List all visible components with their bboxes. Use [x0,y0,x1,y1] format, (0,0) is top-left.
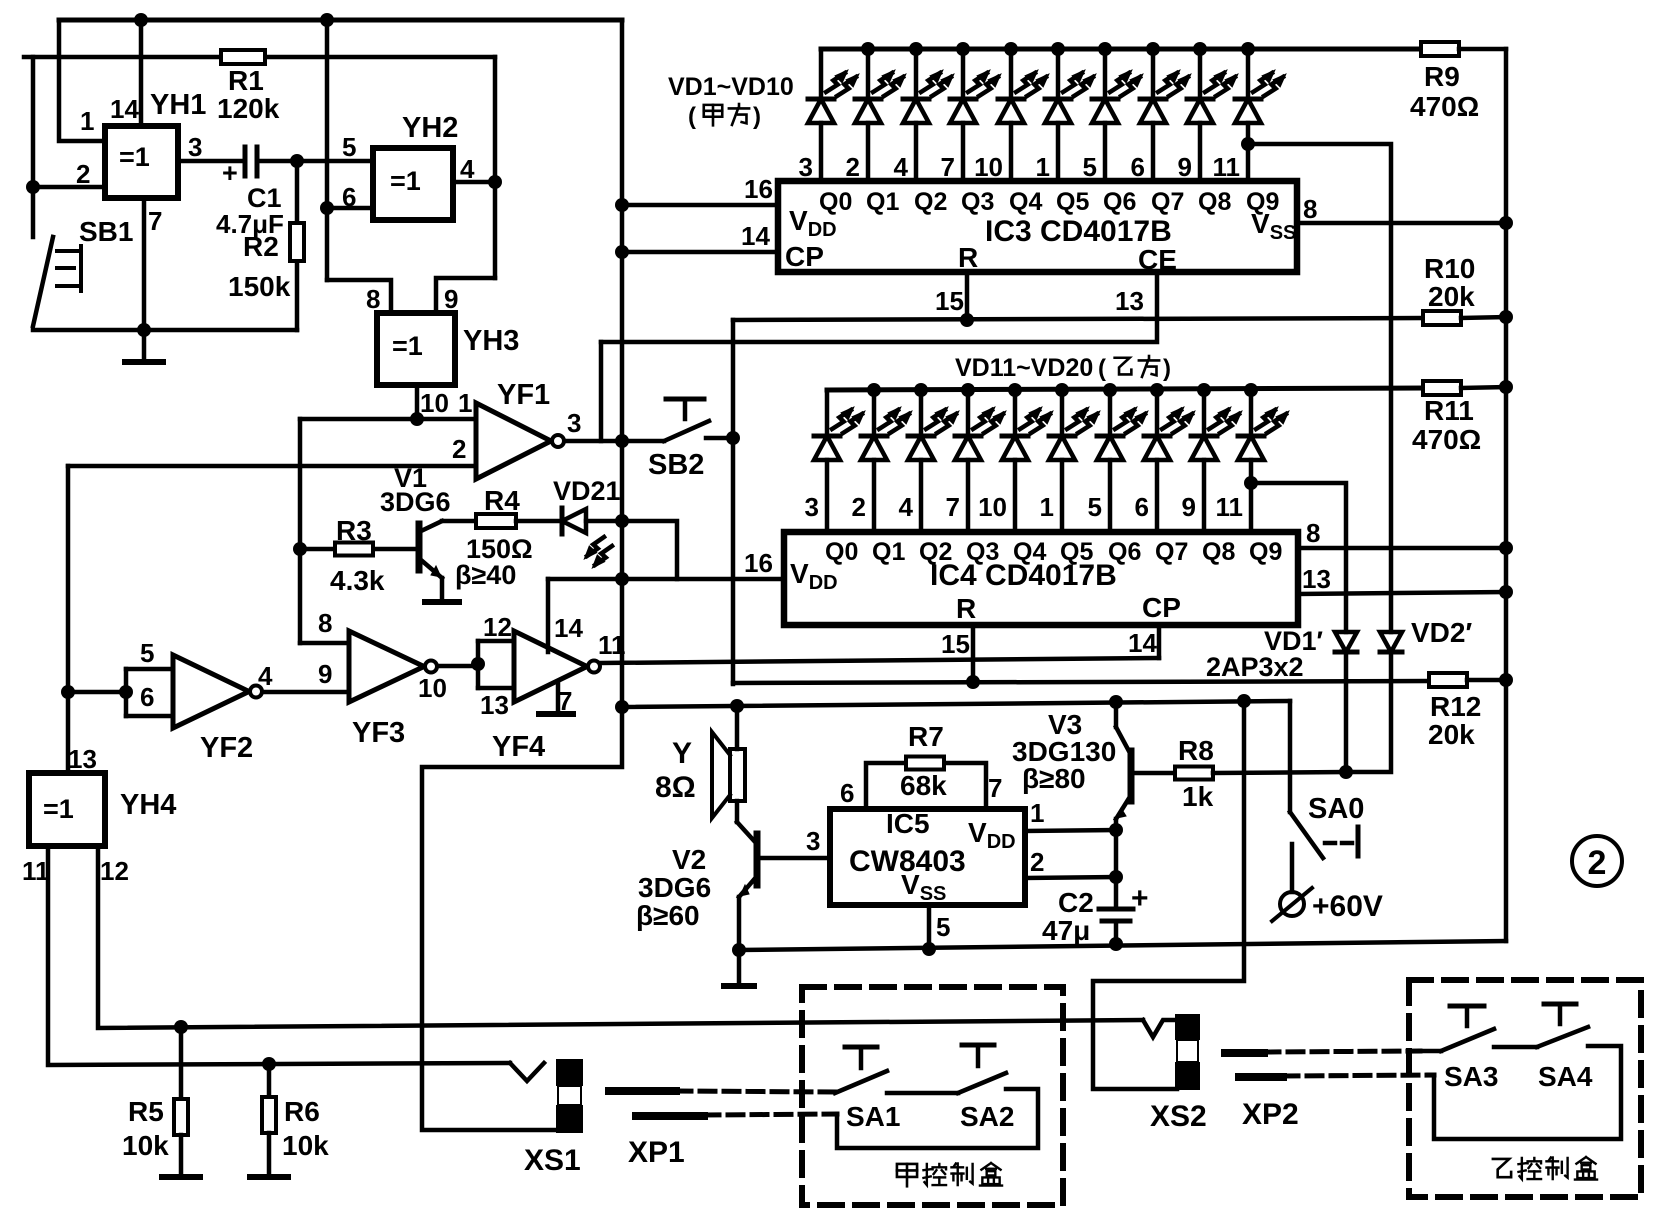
svg-text:470Ω: 470Ω [1412,424,1481,455]
svg-text:68k: 68k [900,770,947,801]
svg-text:13: 13 [1115,286,1144,316]
svg-text:15: 15 [941,629,970,659]
ground rail right [1504,49,1509,941]
svg-text:120k: 120k [217,93,280,124]
wire YF3 out to YF4 [438,664,478,669]
wire CE branch up [599,342,604,441]
wire IC5 pin 2 to C2 [1025,877,1116,878]
wire YF2 input [68,690,126,695]
wire main vertical (bus to audio feed) [620,20,625,708]
svg-text:8: 8 [1306,518,1320,548]
svg-text:=1: =1 [119,142,150,172]
svg-text:11: 11 [1216,492,1244,522]
wire IC4 pin 14 CP from YF4 [1157,625,1162,658]
node audio +V tap [615,700,629,714]
wire R4 to VD21 [516,519,561,524]
wire YF3 pin 8 [300,641,349,646]
xor-gate YH2 [373,148,453,220]
svg-text:1: 1 [458,388,472,418]
svg-text:VD2′: VD2′ [1411,617,1472,648]
speaker Y [730,749,745,801]
transistor V3 collector [1116,727,1131,755]
switch SA4 [1537,1027,1588,1047]
svg-text:14: 14 [554,613,583,643]
svg-text:SA1: SA1 [846,1101,900,1132]
svg-text:8: 8 [1303,194,1317,224]
switch SB2 [664,421,709,441]
resistor R11 [1423,381,1461,395]
led VD1 [819,49,824,99]
wire speaker to V2 collector [735,801,740,822]
wire SA1 to SA2 [887,1091,958,1096]
node IC4 Vdd tap [615,572,629,586]
led VD21 [560,508,565,534]
svg-text:8: 8 [366,284,380,314]
resistor R10 [1423,311,1461,325]
led VD10 [1241,42,1255,56]
svg-text:SA4: SA4 [1538,1061,1593,1092]
svg-text:5: 5 [936,912,950,942]
svg-text:4: 4 [899,492,914,522]
inverter YF4 [514,631,587,702]
wire YH4 pin 12 to XS2 tip [98,846,1143,1028]
svg-text:+60V: +60V [1312,890,1383,923]
node IC3 pin15 junction [960,313,974,327]
svg-text:CP: CP [1142,592,1181,623]
svg-text:2: 2 [852,492,866,522]
node IC4 pin13/rail [1499,585,1513,599]
svg-text:R11: R11 [1424,395,1474,426]
svg-text:3DG6: 3DG6 [638,872,711,903]
inverter YF2 input box [126,667,173,672]
wire feedback vertical to R3/YF3 [298,419,303,643]
jack XS1 tip notch [510,1063,544,1081]
svg-text:SB1: SB1 [79,216,133,247]
wire R9 to rail [1459,47,1506,52]
led VD4 [956,42,970,56]
inverter YF1 [476,403,551,479]
led VD11 [825,390,830,436]
node SB2 / reset vertical [726,431,740,445]
wire IC3 pin 8 Vss [1297,221,1506,226]
wire YF4 pin14 branch [546,579,551,652]
wire SA4 return loop to XP2 [1434,1046,1621,1139]
svg-text:5: 5 [1088,492,1102,522]
resistor R12 [1429,673,1467,687]
svg-text:VD11~VD20: VD11~VD20 [955,354,1093,382]
wire YH1 pin 2 [33,185,105,190]
svg-text:1: 1 [1040,492,1054,522]
plug XP2 lower prong [1239,1073,1283,1081]
svg-text:6: 6 [1135,492,1149,522]
svg-text:YH3: YH3 [463,325,519,357]
node IC3 pin16 tap [615,198,629,212]
svg-text:(: ( [1098,355,1106,382]
wire XS2 sleeve feed [1093,701,1244,1089]
led VD5 [1004,42,1018,56]
svg-text:R: R [958,242,978,273]
wire bottom return SB1/pin7/R2 [33,328,297,333]
wire SB1 top branch [31,57,36,237]
audio IC5 CW8403 [830,809,1025,905]
svg-text:YF4: YF4 [492,731,545,763]
led VD12 [867,383,881,397]
transistor V2 emitter [739,876,757,897]
wire left net vertical to YH4 pin13 [66,466,71,773]
wire VD21 to main vertical [586,519,622,524]
svg-text:β≥60: β≥60 [636,900,700,931]
capacitor C2 [1114,877,1119,908]
wire YF1 pin2 input [68,464,476,469]
svg-text:Q5: Q5 [1060,538,1093,566]
led VD9 [1193,42,1207,56]
jack XS1 body [556,1059,583,1086]
led VD18 [1150,383,1164,397]
svg-text:SA2: SA2 [960,1101,1014,1132]
switch SB1 [33,237,53,326]
svg-text:3: 3 [799,152,813,182]
svg-text:Q7: Q7 [1151,188,1184,216]
wire V2 emitter down [737,897,742,950]
node V3/IC5 pin1 [1109,823,1123,837]
switch SA3 [1441,1029,1494,1051]
node YF2 input branch [61,685,75,699]
svg-text:YF3: YF3 [352,717,405,749]
svg-text:β≥40: β≥40 [455,560,516,590]
svg-text:5: 5 [1083,152,1097,182]
svg-text:=1: =1 [43,794,74,824]
node speaker tap [730,699,744,713]
wire YH1 pin 14 feed [139,20,144,126]
wire YH1 pin3 to C1 to YH2 pin5 [178,159,243,164]
svg-text:11: 11 [598,630,626,660]
svg-text:150k: 150k [228,271,291,302]
svg-text:=1: =1 [390,166,421,196]
figure number 2 [1572,836,1622,886]
wire YH2 pin 4 out [453,180,495,185]
switch SA2 [958,1073,1006,1093]
svg-text:6: 6 [140,682,154,712]
svg-text:13: 13 [1302,564,1331,594]
xor-gate YH1 [105,126,178,198]
svg-text:=1: =1 [392,331,423,361]
svg-text:Q0: Q0 [825,538,858,566]
svg-text:2: 2 [1030,847,1044,877]
svg-text:16: 16 [744,548,773,578]
svg-text:V2: V2 [672,844,706,875]
node pin4 junction [488,175,502,189]
svg-text:3DG6: 3DG6 [380,487,451,517]
node R11/rail [1499,380,1513,394]
resistor R1 [221,50,265,64]
resistor R3 [300,547,336,552]
plug XP1 lower prong [636,1112,704,1120]
svg-text:2: 2 [76,159,90,189]
wire R10 to rail [1461,317,1506,318]
node R3 junction [293,542,307,556]
node R10/rail [1499,310,1513,324]
jack XS2 tip notch [1143,1020,1177,1037]
diode VD1prime [1335,632,1357,652]
ground below YH1 pin7 [142,330,147,360]
svg-text:8Ω: 8Ω [655,771,696,804]
svg-text:Q9: Q9 [1249,538,1282,566]
wire +V to SA0 [1288,701,1293,812]
xor-gate YH3 [377,313,455,385]
svg-text:9: 9 [1182,492,1196,522]
wire R2 branch [295,161,300,330]
svg-text:12: 12 [483,612,512,642]
svg-text:YF1: YF1 [497,379,550,411]
wire R1 rail [24,55,495,60]
svg-text:Q1: Q1 [866,188,899,216]
svg-text:9: 9 [318,659,332,689]
wire R1-rail to YH2 out vertical [493,57,498,278]
transistor V1 collector [421,521,442,531]
wire YH4 pin 11 to XS1 tip [48,846,510,1065]
svg-text:): ) [753,103,761,130]
svg-text:SA3: SA3 [1444,1061,1498,1092]
svg-text:CP: CP [785,241,824,272]
svg-text:5: 5 [342,132,356,162]
svg-text:+: + [1131,882,1149,915]
node pin8/rail [1499,216,1513,230]
wire YH2 pin 6 [327,206,373,211]
xor-gate YH4 [29,773,105,846]
svg-text:1: 1 [1030,798,1044,828]
svg-text:+: + [222,158,238,188]
node pin2 junction [26,180,40,194]
node YF2 input [119,685,133,699]
svg-text:4: 4 [460,154,475,184]
svg-text:Q3: Q3 [961,188,994,216]
svg-text:YF2: YF2 [200,732,253,764]
counter IC4 CD4017B [784,532,1298,625]
svg-text:1: 1 [80,106,94,136]
wire YH1 pin 1 feed [59,20,105,141]
svg-text:6: 6 [840,778,854,808]
wire IC4 pin 8 Vss [1298,546,1506,551]
plug XP2 upper prong [1225,1049,1264,1057]
svg-text:Q7: Q7 [1155,538,1188,566]
node YF4 input [471,657,485,671]
svg-text:XP1: XP1 [628,1136,685,1169]
svg-text:7: 7 [148,206,162,236]
svg-text:CE: CE [1138,244,1177,275]
node YH2 pin6 junction [320,201,334,215]
node V2 emitter/ground line [732,943,746,957]
svg-text:C2: C2 [1058,887,1094,918]
node C1/R2 junction [290,154,304,168]
node pin10 junction [410,412,424,426]
capacitor C1 [243,147,248,176]
svg-text:11: 11 [22,856,50,886]
wire SA2 return loop to XP1 [837,1089,1038,1148]
svg-text:3: 3 [805,492,819,522]
svg-text:3: 3 [567,408,581,438]
wire IC5 pin 1 to V3 emitter [1025,830,1116,831]
node VD21 tap [615,514,629,528]
svg-text:SA0: SA0 [1308,793,1364,825]
svg-text:VD21: VD21 [553,476,621,506]
svg-text:Q5: Q5 [1056,188,1089,216]
svg-text:14: 14 [741,221,770,251]
diode VD2prime [1380,632,1402,652]
svg-text:10k: 10k [282,1130,329,1161]
wire +V top bus [59,18,622,23]
wire IC3 pin13 CE to YF1 output [601,272,1157,342]
wire V3 base to R8 [1133,771,1175,776]
wire R12 to ground rail [1467,678,1506,683]
svg-text:R: R [956,593,976,624]
wire IC3 pin 15 R [965,272,970,320]
svg-text:5: 5 [140,638,154,668]
wire SA3 to SA4 [1494,1045,1537,1050]
svg-text:Q9: Q9 [1246,188,1279,216]
jack XS2 body [1175,1014,1200,1040]
wire speaker feed [735,706,740,749]
led VD20 [1244,383,1258,397]
led VD16 [1055,383,1069,397]
led VD7 [1098,42,1112,56]
wire V2 base to IC5 pin3 [759,856,830,861]
ground YF4 pin7 [556,682,561,712]
inverter YF3 [349,631,424,702]
wire IC3 Q9 to VD2prime [1241,137,1255,151]
enclosure box A (jia control box) [802,987,1063,1205]
led VD13 [914,383,928,397]
node R12/rail [1499,673,1513,687]
wire audio +V line [622,701,1290,707]
plug XP1 upper prong [609,1087,676,1095]
svg-text:11: 11 [1213,152,1241,182]
node C2/ground line [1109,937,1123,951]
svg-text:10: 10 [420,388,449,418]
wire IC3 pin 16 Vdd [622,203,778,208]
svg-text:XS2: XS2 [1150,1100,1207,1133]
svg-text:7: 7 [946,492,960,522]
transistor V2 base bar [754,834,761,885]
wire R8 to diode node [1213,772,1346,773]
svg-text:Q6: Q6 [1108,538,1141,566]
wire IC4 pin 13 CE [1298,592,1506,594]
led VD8 [1146,42,1160,56]
svg-text:20k: 20k [1428,719,1475,750]
svg-text:4.3k: 4.3k [330,565,385,596]
svg-text:Y: Y [672,737,692,770]
wire YH3 pin 10 [415,385,420,419]
svg-text:(: ( [688,103,696,130]
svg-text:2: 2 [452,434,466,464]
svg-text:R9: R9 [1424,61,1460,92]
resistor R7 loop [866,763,906,809]
label jia control box [897,1164,917,1177]
ground V1 [425,599,459,605]
node IC5 pin5/ground line [922,942,936,956]
svg-text:4: 4 [258,661,273,691]
wire IC3 pin 14 CP [622,250,778,255]
svg-text:2AP3x2: 2AP3x2 [1206,652,1304,682]
svg-text:9: 9 [444,284,458,314]
node pin7/ground junction [137,323,151,337]
wire IC4 pin 15 R [971,625,976,682]
svg-text:2: 2 [1588,844,1607,882]
svg-text:14: 14 [110,94,139,124]
svg-text:Q2: Q2 [919,538,952,566]
wire IC4 pin16 Vdd step [622,521,677,579]
resistor R8 [1175,767,1213,780]
svg-text:7: 7 [941,152,955,182]
svg-text:6: 6 [1131,152,1145,182]
wire VD1prime to R8 node [1344,654,1349,772]
led VD14 [961,383,975,397]
svg-text:Q8: Q8 [1198,188,1231,216]
wire down-left to XS1 sleeve [422,707,622,1130]
led VD19 [1197,383,1211,397]
svg-text:1k: 1k [1182,781,1214,812]
wire IC5 pin 5 ground [927,905,932,949]
resistor R5 [179,1027,184,1100]
svg-text:7: 7 [988,773,1002,803]
svg-text:9: 9 [1178,152,1192,182]
wire reset to IC4 pin15 and R12 [733,681,1430,683]
led VD15 [1008,383,1022,397]
transistor V3 base bar [1128,751,1135,801]
label yi control box [1493,1159,1511,1177]
ground R5 [162,1174,200,1180]
node bus/YH2 branch [320,13,334,27]
svg-text:R5: R5 [128,1096,164,1127]
svg-text:10: 10 [978,492,1007,522]
resistor R6 [267,1064,272,1098]
wire YF4 output to IC4 CP [601,658,1159,663]
wire LED bus 1 (VD1-VD10) [821,47,1421,52]
wire IC4 Q9 to VD1prime [1244,476,1258,490]
svg-text:YH4: YH4 [120,789,176,821]
wire V3 emitter down [1114,819,1119,877]
wire ground return line [739,941,1506,950]
node IC4 pin15 [966,675,980,689]
svg-text:Q3: Q3 [966,538,999,566]
svg-text:10: 10 [418,673,447,703]
svg-text:XS1: XS1 [524,1144,581,1177]
svg-text:XP2: XP2 [1242,1098,1299,1131]
svg-text:20k: 20k [1428,281,1475,312]
wire R11 to rail [1461,387,1506,388]
transistor V1 emitter [421,560,442,578]
switch SA0 [1290,812,1323,858]
svg-text:R3: R3 [336,515,372,546]
svg-text:Q1: Q1 [872,538,905,566]
wire YF1 pin1 input [300,417,476,422]
svg-text:15: 15 [935,286,964,316]
node C2 top [1109,870,1123,884]
enclosure box B (yi control box) [1409,980,1641,1197]
svg-text:Q0: Q0 [819,188,852,216]
wire collector to R4 [442,519,477,524]
ground R6 [250,1174,288,1180]
wire to YH3 pin 9 [436,278,495,313]
node YF1 out / main vertical [615,434,629,448]
node IC3 pin14 tap [615,245,629,259]
node diodes/R8 junction [1339,765,1353,779]
wire YF2 out to YF3 [263,690,349,695]
svg-text:14: 14 [1128,628,1157,658]
svg-text:13: 13 [68,744,97,774]
inverter YF2 [173,655,249,728]
svg-text:R4: R4 [484,485,520,516]
svg-text:R1: R1 [228,65,264,96]
